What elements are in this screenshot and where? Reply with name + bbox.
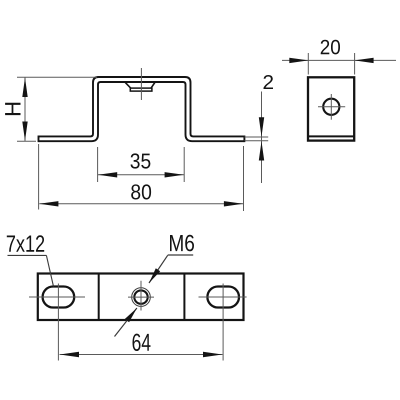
- dimension 35 right extension line: [183, 147, 185, 182]
- bottom view right slot 7x12: [207, 287, 239, 308]
- dimension 80 right extension line: [243, 146, 245, 211]
- dimension 20 line: [282, 59, 396, 61]
- bottom view left slot vertical centerline: [57, 284, 59, 361]
- dimension 2 lower arrow: [259, 141, 264, 160]
- dimension H bottom arrow: [22, 122, 27, 141]
- front view left flange end cap: [38, 136, 40, 143]
- dimension 35 left arrow: [98, 172, 117, 177]
- dimension H line: [24, 78, 26, 142]
- bottom view right slot vertical centerline: [222, 284, 224, 361]
- dimension 64 line: [60, 354, 223, 356]
- leader M6 lower arrow: [125, 308, 137, 322]
- side view hole horizontal centerline: [318, 106, 345, 108]
- dimension 80 line: [39, 203, 243, 205]
- side view hole vertical centerline: [330, 94, 332, 120]
- leader M6 shoulder: [168, 254, 194, 256]
- dimension 64 label: [133, 334, 151, 351]
- side view outline: [308, 77, 354, 140]
- front view right flange end cap: [243, 136, 245, 143]
- dimension 2 upper extension line: [245, 136, 269, 138]
- dimension 80 label: [131, 184, 151, 199]
- side view hole circle: [323, 99, 339, 115]
- dimension 20 right extension line: [354, 53, 356, 75]
- bottom view M6 hole vertical centerline: [140, 281, 142, 311]
- dimension 35 label: [131, 153, 151, 168]
- dimension 35 right arrow: [165, 172, 184, 177]
- dimension H extension line top: [17, 76, 97, 78]
- front view hole centerline: [140, 68, 142, 100]
- leader M6 upper diagonal: [149, 255, 168, 283]
- leader 7x12 diagonal: [46, 255, 53, 286]
- bottom view M6 hole horizontal centerline: [128, 296, 154, 298]
- dimension 64 left arrow: [60, 352, 79, 357]
- countersink left slant: [125, 82, 131, 88]
- bottom view M6 hole inner circle: [134, 290, 147, 303]
- side view flange inner line: [308, 135, 354, 137]
- bottom view M6 thread circle: [132, 288, 151, 307]
- dimension 20 right arrow: [354, 58, 373, 63]
- dimension 35 left extension line: [97, 147, 99, 182]
- dimension 35 line: [98, 174, 184, 176]
- bottom view outline: [38, 274, 244, 321]
- label M6: [170, 235, 194, 252]
- dimension 80 left extension line: [38, 144, 40, 210]
- dimension 20 left extension line: [307, 53, 309, 75]
- dimension H top arrow: [22, 78, 27, 97]
- dimension 2 upper arrow: [259, 117, 264, 136]
- bottom view left slot 7x12: [43, 287, 75, 308]
- front view hat profile outer surface: [39, 77, 245, 136]
- countersink right slant: [151, 82, 155, 88]
- dimension 2 vertical line: [261, 92, 263, 184]
- dimension H label: [5, 103, 20, 115]
- leader 7x12 shoulder: [8, 254, 47, 256]
- leader M6 upper arrow: [149, 268, 160, 283]
- bottom view left slot horizontal centerline: [29, 296, 85, 298]
- dimension 80 right arrow: [224, 201, 243, 206]
- front view hat profile inner surface: [39, 82, 245, 141]
- bottom view right bend line: [183, 274, 185, 321]
- dimension 2 lower extension line: [245, 140, 269, 142]
- label 7x12: [7, 235, 44, 252]
- countersink bottom bar: [130, 88, 152, 91]
- dimension 80 left arrow: [39, 201, 58, 206]
- dimension 2 label: [264, 75, 274, 89]
- leader M6 lower diagonal: [115, 308, 137, 337]
- bottom view left bend line: [98, 274, 100, 321]
- bottom view right slot horizontal centerline: [199, 296, 247, 298]
- dimension 64 right arrow: [203, 352, 222, 357]
- dimension 20 label: [321, 40, 340, 55]
- dimension 20 left arrow: [289, 58, 308, 63]
- dimension H extension line bottom: [17, 140, 36, 142]
